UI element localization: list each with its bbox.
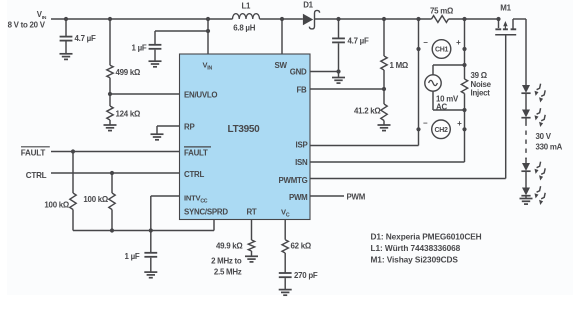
svg-text:75 mΩ: 75 mΩ [430,7,453,16]
svg-text:CH1: CH1 [435,47,449,54]
svg-text:270 pF: 270 pF [294,271,318,280]
svg-text:2.5 MHz: 2.5 MHz [214,268,242,277]
svg-text:RT: RT [246,208,256,217]
svg-text:100 kΩ: 100 kΩ [44,200,69,209]
svg-text:ISP: ISP [296,141,308,150]
svg-text:ISN: ISN [295,158,308,167]
svg-text:L1: L1 [241,2,251,11]
svg-text:M1: M1 [500,4,511,13]
svg-text:499 kΩ: 499 kΩ [116,68,141,77]
svg-text:AC: AC [436,103,447,112]
svg-text:62 kΩ: 62 kΩ [291,241,311,250]
svg-text:RP: RP [184,123,194,132]
svg-text:PWM: PWM [289,193,308,202]
svg-text:L1: Würth 74438336068: L1: Würth 74438336068 [371,243,461,253]
svg-text:+: + [456,38,461,47]
svg-text:FAULT: FAULT [184,148,208,157]
svg-text:PWMTG: PWMTG [279,176,308,185]
svg-text:100 kΩ: 100 kΩ [83,195,108,204]
svg-text:6.8 µH: 6.8 µH [233,24,255,33]
svg-text:124 kΩ: 124 kΩ [116,110,141,119]
svg-text:FAULT: FAULT [21,148,46,157]
svg-text:PWM: PWM [347,192,366,201]
svg-text:49.9 kΩ: 49.9 kΩ [216,241,243,250]
svg-text:1 µF: 1 µF [125,252,140,261]
svg-text:EN/UVLO: EN/UVLO [184,91,217,100]
svg-text:4.7 µF: 4.7 µF [348,37,369,46]
svg-text:1 µF: 1 µF [132,44,147,53]
svg-text:2 MHz to: 2 MHz to [211,257,242,266]
svg-text:CTRL: CTRL [184,170,204,179]
svg-text:4.7 µF: 4.7 µF [75,34,96,43]
svg-text:M1: Vishay Si2309CDS: M1: Vishay Si2309CDS [371,254,459,264]
svg-text:CTRL: CTRL [26,171,47,180]
svg-text:30 V: 30 V [536,132,552,141]
svg-text:GND: GND [290,68,307,77]
svg-text:SYNC/SPRD: SYNC/SPRD [184,208,228,217]
svg-text:CH2: CH2 [434,127,448,134]
svg-text:D1: Nexperia PMEG6010CEH: D1: Nexperia PMEG6010CEH [371,231,482,241]
svg-text:330 mA: 330 mA [536,142,563,151]
svg-text:SW: SW [275,61,288,70]
svg-text:LT3950: LT3950 [228,124,261,135]
svg-text:1 MΩ: 1 MΩ [390,61,408,70]
svg-text:8 V to 20 V: 8 V to 20 V [8,21,46,30]
svg-text:D1: D1 [303,1,313,10]
svg-text:+: + [457,119,462,128]
svg-text:Inject: Inject [471,88,491,97]
svg-text:41.2 kΩ: 41.2 kΩ [354,107,381,116]
svg-text:FB: FB [296,86,307,95]
